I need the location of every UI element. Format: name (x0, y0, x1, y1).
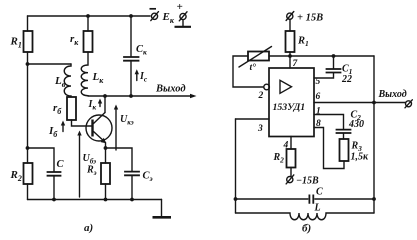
terminal output (406, 101, 412, 107)
terminal +15V (287, 13, 293, 19)
capacitor C (48, 172, 61, 176)
svg-text:а): а) (84, 222, 93, 234)
wire collector riser (104, 96, 106, 113)
capacitor Ce (125, 172, 139, 176)
pin 3 wire (236, 118, 270, 120)
voltage Ube arrow (79, 135, 81, 198)
svg-text:22: 22 (341, 74, 352, 85)
wire R1 column top (27, 16, 29, 31)
svg-text:430: 430 (348, 119, 364, 130)
op-amp U1 box (269, 68, 314, 137)
node A dot (26, 62, 30, 66)
svg-text:+ 15В: + 15В (297, 13, 323, 24)
svg-text:+: + (177, 1, 183, 13)
node emitter dot (104, 146, 108, 150)
svg-text:C: C (57, 159, 65, 170)
thermistor t (248, 52, 269, 61)
voltage Uke arrow (115, 109, 117, 151)
op-amp triangle (280, 80, 292, 93)
pin 7 (289, 56, 291, 68)
inductor Lv (64, 64, 71, 97)
terminal -15V (287, 177, 293, 183)
wire left rail (235, 119, 237, 213)
resistor rb (67, 97, 76, 120)
wire output line (88, 95, 192, 97)
wire top rail (28, 15, 151, 17)
svg-text:1,5к: 1,5к (351, 152, 370, 163)
pin 1 wire and capacitor C2 (314, 115, 344, 130)
svg-text:t°: t° (250, 62, 257, 73)
svg-text:153УД1: 153УД1 (273, 102, 306, 113)
wire right rail (373, 56, 375, 213)
wire emitter to Ce (106, 148, 133, 171)
svg-text:8: 8 (316, 119, 321, 129)
tank capacitor C (236, 198, 308, 200)
pin 4 wire (290, 137, 292, 150)
resistor rk (86, 14, 90, 18)
current Ik arrow (99, 102, 101, 107)
wire rb to base (72, 120, 93, 126)
capacitor Ck (129, 14, 133, 18)
pin 5 wire and capacitor C1 (314, 73, 334, 78)
svg-text:6: 6 (316, 92, 321, 102)
resistor R1 (289, 20, 291, 32)
current Ic arrow (136, 73, 138, 81)
svg-text:−15В: −15В (296, 176, 319, 187)
resistor R2 (287, 149, 296, 168)
inductor Lk (81, 52, 88, 96)
svg-text:3: 3 (257, 124, 263, 134)
resistor R3 (340, 139, 349, 161)
wire thermistor left loop (233, 56, 264, 87)
svg-text:б): б) (302, 223, 311, 235)
pin 8 feedback wire (314, 128, 344, 169)
svg-text:Выход: Выход (378, 89, 407, 100)
svg-text:2: 2 (258, 91, 264, 101)
node B dot (26, 146, 30, 150)
wire R1 bottom column (27, 52, 29, 163)
svg-text:Выход: Выход (155, 84, 186, 95)
svg-text:1: 1 (316, 107, 321, 117)
resistor R2 (left) (24, 163, 33, 184)
svg-text:5: 5 (316, 77, 321, 87)
current Ib arrow (62, 124, 64, 132)
pin 6 output wire (314, 102, 405, 104)
wire emitter down (105, 143, 107, 149)
wire top horizontal (269, 55, 374, 57)
terminal Ek minus (151, 13, 157, 19)
wire node A to Lv (28, 63, 72, 65)
ground (161, 200, 163, 218)
input circle pin2 (264, 84, 270, 90)
svg-text:C: C (316, 187, 323, 198)
resistor R1 (24, 31, 33, 52)
resistor Re (105, 148, 107, 163)
svg-text:L: L (314, 203, 321, 214)
wire bottom rail (28, 199, 162, 201)
tank inductor L (236, 213, 375, 220)
wire node B to C (28, 148, 55, 172)
transistor VT1 (86, 115, 112, 141)
